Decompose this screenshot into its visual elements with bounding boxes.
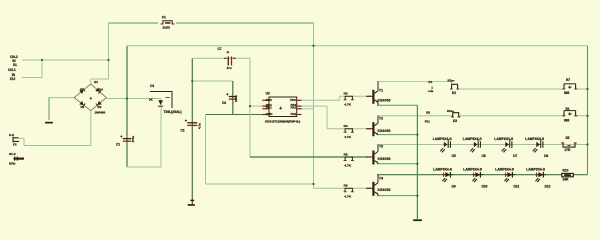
transistor T3 bbox=[366, 145, 378, 165]
wire T2 emitter to bus bbox=[377, 134, 417, 136]
wire rowB to rail corner bbox=[573, 174, 588, 176]
varistor RV1 left bbox=[14, 157, 25, 161]
svg-text:U3: U3 bbox=[266, 91, 270, 95]
resistor R3 bbox=[344, 96, 354, 100]
svg-text:PA1: PA1 bbox=[291, 105, 297, 109]
svg-text:4.7K: 4.7K bbox=[344, 103, 351, 107]
svg-text:4.7u: 4.7u bbox=[198, 123, 202, 129]
svg-text:PB3: PB3 bbox=[266, 98, 272, 102]
svg-text:F2: F2 bbox=[13, 143, 17, 147]
wire T4 emitter to bus bbox=[377, 195, 417, 197]
svg-text:K1: K1 bbox=[428, 80, 432, 84]
svg-text:T3: T3 bbox=[379, 144, 383, 148]
wire VCC rail top left of F1 bbox=[109, 22, 159, 24]
svg-text:R4: R4 bbox=[344, 124, 348, 128]
svg-text:220R: 220R bbox=[163, 25, 171, 29]
junction AC node bbox=[107, 59, 109, 61]
wire TS branch vertical bbox=[160, 99, 162, 168]
svg-text:B1: B1 bbox=[94, 80, 98, 84]
wire stage1 jog bbox=[339, 96, 341, 100]
junction T4 emitter bbox=[416, 194, 418, 196]
svg-text:U7: U7 bbox=[513, 154, 517, 158]
svg-text:K3a+: K3a+ bbox=[447, 109, 455, 113]
svg-text:D2: D2 bbox=[98, 105, 102, 109]
wire mid vertical bus bbox=[313, 23, 315, 188]
resonator R9 bbox=[562, 111, 577, 117]
svg-text:T1: T1 bbox=[379, 89, 383, 93]
svg-text:LAMP6X4-S: LAMP6X4-S bbox=[494, 137, 514, 141]
wire bridge bottom down bbox=[90, 111, 92, 146]
wire emitter ground bus bbox=[416, 105, 418, 219]
wire T2 collector row2 bbox=[377, 115, 453, 117]
svg-text:C1: C1 bbox=[116, 142, 120, 146]
svg-text:F01: F01 bbox=[425, 119, 431, 123]
wire T1 emitter to bus bbox=[377, 104, 417, 106]
capacitor C7 inline bbox=[224, 51, 236, 66]
junction pin2 branch bbox=[249, 105, 251, 107]
wire row2 mid bbox=[459, 115, 564, 117]
transistor T1 bbox=[366, 81, 378, 105]
capacitor C1 bulk bbox=[120, 135, 131, 141]
wire K2 left leg link bbox=[451, 81, 453, 84]
wire main DC vertical through C1 bbox=[126, 46, 128, 167]
svg-text:H-2: H-2 bbox=[9, 133, 14, 137]
svg-text:27R: 27R bbox=[565, 148, 572, 152]
wire row1 to rail bbox=[577, 88, 588, 90]
svg-text:C7: C7 bbox=[218, 47, 222, 51]
capacitor C2 bbox=[185, 120, 198, 126]
svg-text:D12: D12 bbox=[545, 185, 551, 189]
svg-text:D11: D11 bbox=[514, 185, 520, 189]
capacitor C3 bbox=[226, 93, 237, 99]
svg-text:47u: 47u bbox=[227, 66, 232, 70]
LED D10 bbox=[472, 172, 483, 182]
junction rail row1 bbox=[586, 88, 588, 90]
svg-text:LAMP6X4-S: LAMP6X4-S bbox=[433, 168, 453, 172]
junction mid bus stage4 bbox=[312, 183, 314, 185]
LED U7 bbox=[502, 140, 512, 152]
svg-text:K2: K2 bbox=[452, 91, 456, 95]
svg-text:+Ha: +Ha bbox=[428, 89, 434, 93]
svg-text:4.7K: 4.7K bbox=[344, 135, 351, 139]
wire T1 collector row bbox=[377, 80, 452, 82]
wire bridge top stub bbox=[90, 79, 92, 84]
wire GND net under IC bbox=[206, 114, 263, 116]
svg-text:KRb: KRb bbox=[9, 161, 15, 165]
svg-text:U6: U6 bbox=[482, 154, 486, 158]
svg-text:D10: D10 bbox=[482, 185, 488, 189]
svg-text:SS8050: SS8050 bbox=[378, 99, 391, 103]
diode D4 bridge top-right bbox=[91, 84, 107, 98]
resistor R10 bbox=[562, 173, 574, 176]
svg-text:+: + bbox=[279, 106, 282, 112]
pin names U3 right bbox=[290, 98, 297, 116]
svg-text:K2a+: K2a+ bbox=[448, 79, 456, 83]
junction CN link bbox=[41, 59, 43, 61]
resistor R4 bbox=[344, 129, 354, 133]
wire F2 out bbox=[19, 137, 25, 139]
wire C3 vertical bbox=[232, 81, 234, 115]
diode D3 bridge top-left bbox=[74, 84, 91, 98]
svg-text:U5: U5 bbox=[452, 154, 456, 158]
junction T3 emitter bbox=[416, 163, 418, 165]
pin names U3 left bbox=[266, 98, 274, 116]
svg-text:LAMP6X4-S: LAMP6X4-S bbox=[526, 168, 546, 172]
pin stubs U3 left bbox=[262, 100, 269, 114]
svg-text:S1: S1 bbox=[13, 63, 17, 67]
svg-text:688: 688 bbox=[564, 91, 570, 95]
wire bottom link C1 bbox=[127, 166, 161, 168]
wire rowA LED net bbox=[377, 144, 588, 146]
svg-text:LAMP6X4-S: LAMP6X4-S bbox=[525, 137, 545, 141]
wire C7 right leg down to stage3 bbox=[249, 58, 251, 157]
svg-text:B2: B2 bbox=[426, 110, 430, 114]
svg-text:1N5408: 1N5408 bbox=[94, 110, 105, 114]
transistor T2 bbox=[366, 116, 378, 136]
svg-text:C2: C2 bbox=[181, 129, 185, 133]
relay K2 bbox=[450, 84, 459, 89]
pin stubs U3 right bbox=[297, 100, 302, 114]
svg-text:24R: 24R bbox=[563, 178, 570, 182]
wire bridge right to TS/C1 net bbox=[106, 98, 161, 100]
svg-text:AT13-STC15W204(PDIP-8L): AT13-STC15W204(PDIP-8L) bbox=[265, 119, 300, 123]
wire CN input upper bbox=[22, 59, 109, 61]
wire to bridge top bbox=[91, 78, 109, 80]
svg-text:SS8050: SS8050 bbox=[378, 157, 391, 161]
wire stage3 horizontal bbox=[250, 156, 368, 158]
wire right rail vertical bbox=[587, 46, 589, 175]
svg-text:R7: R7 bbox=[566, 78, 570, 82]
svg-text:C4: C4 bbox=[150, 84, 154, 88]
svg-text:100u: 100u bbox=[234, 95, 238, 102]
svg-text:T2: T2 bbox=[379, 117, 383, 121]
svg-text:TS9L(2GAL): TS9L(2GAL) bbox=[164, 110, 182, 114]
svg-text:4.7K: 4.7K bbox=[344, 163, 351, 167]
wire F2 stub bbox=[23, 138, 25, 145]
op-amp U3 MCU box bbox=[269, 97, 297, 117]
junction bridge DC+ bbox=[126, 97, 128, 99]
LED D11 bbox=[504, 172, 515, 182]
resistor S5 bbox=[561, 143, 577, 147]
svg-text:R5: R5 bbox=[344, 152, 348, 156]
svg-text:R10: R10 bbox=[563, 168, 569, 172]
resistor R6 bbox=[344, 188, 354, 192]
wire IC pin1 right bbox=[302, 99, 340, 101]
wire IC left pin2 stub bbox=[250, 105, 262, 107]
transistor T4 bbox=[366, 175, 378, 196]
svg-text:PB1: PB1 bbox=[266, 105, 272, 109]
svg-text:PA2: PA2 bbox=[291, 112, 297, 116]
wire stage4 long horizontal bbox=[206, 183, 314, 185]
svg-text:K3: K3 bbox=[453, 119, 457, 123]
wire IC pin3 right bbox=[302, 108, 314, 110]
wire IC pin2 right bbox=[302, 105, 328, 107]
wire stage2 vertical bbox=[326, 106, 328, 129]
wire row1 to R8 bbox=[458, 88, 566, 90]
wire stage1 base bbox=[340, 95, 368, 97]
ground middle bbox=[188, 200, 195, 206]
wire rowB LED net bbox=[377, 174, 562, 176]
wire CN input lower bbox=[22, 77, 42, 79]
svg-text:LAMP6X4-S: LAMP6X4-S bbox=[433, 137, 453, 141]
svg-text:LAMP6X4-S: LAMP6X4-S bbox=[463, 168, 483, 172]
diode/regulator TS1 bbox=[149, 92, 172, 109]
junction T2 emitter bbox=[416, 133, 418, 135]
junction rail rowA bbox=[586, 143, 588, 145]
svg-text:D1: D1 bbox=[81, 105, 85, 109]
wire to C3 top bbox=[192, 80, 233, 82]
resonator R7 bbox=[562, 84, 577, 90]
wire stage4 base bbox=[314, 187, 369, 189]
svg-text:D3: D3 bbox=[80, 88, 84, 92]
wire stage2 base bbox=[327, 128, 368, 130]
LED U5 bbox=[440, 140, 450, 152]
node bridge center bbox=[90, 97, 92, 99]
svg-text:SS8050: SS8050 bbox=[378, 129, 391, 133]
LED U8 bbox=[533, 140, 543, 152]
fuse F2 left input bbox=[13, 137, 20, 143]
wire T3 emitter to bus bbox=[377, 163, 417, 165]
svg-text:S5: S5 bbox=[566, 136, 570, 140]
svg-text:470u: 470u bbox=[131, 136, 135, 143]
wire left of IC down bbox=[205, 115, 207, 185]
LED D12 bbox=[535, 172, 546, 182]
wire row2 to rail bbox=[576, 115, 588, 117]
svg-text:R6: R6 bbox=[344, 184, 348, 188]
ground left bbox=[45, 122, 53, 124]
junction rail row2 bbox=[586, 115, 588, 117]
LED U6 bbox=[470, 140, 480, 152]
svg-text:X12: X12 bbox=[10, 77, 16, 81]
junction C2/C3 branch bbox=[191, 80, 193, 82]
wire ground stub bbox=[48, 98, 50, 120]
LED D9 bbox=[442, 172, 453, 182]
wire C7 row bbox=[192, 57, 250, 59]
wire F2 to bridge bottom bbox=[24, 145, 91, 147]
diode D2 bridge bottom-right bbox=[91, 98, 107, 111]
wire VCC rail top right of F1 bbox=[176, 22, 314, 24]
svg-text:GND: GND bbox=[266, 112, 274, 116]
svg-text:LAMP6X4-S: LAMP6X4-S bbox=[495, 168, 515, 172]
svg-text:S1-2: S1-2 bbox=[9, 152, 16, 156]
svg-text:LAMP6X4-S: LAMP6X4-S bbox=[463, 137, 483, 141]
svg-text:CN-1: CN-1 bbox=[8, 68, 16, 72]
diode D1 bridge bottom-left bbox=[74, 98, 91, 111]
svg-text:4.7K: 4.7K bbox=[344, 195, 351, 199]
fuse F1 bbox=[161, 21, 175, 25]
wire ground to bridge left bbox=[49, 97, 74, 99]
svg-text:R3: R3 bbox=[344, 92, 348, 96]
wire C2 vertical to ground bbox=[191, 58, 193, 199]
svg-text:F1: F1 bbox=[162, 16, 166, 20]
junction mid bus VCC bbox=[312, 45, 314, 47]
wire vertical from rail to AC input bbox=[108, 23, 110, 79]
relay K3 bbox=[451, 113, 460, 117]
resistor R5 bbox=[344, 157, 354, 161]
wire CN link vertical bbox=[41, 60, 43, 78]
ground right bbox=[413, 219, 422, 221]
svg-text:688: 688 bbox=[564, 119, 570, 123]
svg-text:SS8050: SS8050 bbox=[378, 188, 391, 192]
svg-text:C3: C3 bbox=[222, 101, 226, 105]
wire VCC mid horizontal long bbox=[127, 45, 588, 47]
svg-text:U8: U8 bbox=[544, 154, 548, 158]
svg-text:R1: R1 bbox=[566, 107, 570, 111]
svg-text:D4: D4 bbox=[99, 88, 103, 92]
svg-text:VCC: VCC bbox=[290, 98, 297, 102]
svg-text:D9: D9 bbox=[452, 185, 456, 189]
svg-text:T4: T4 bbox=[379, 177, 383, 181]
